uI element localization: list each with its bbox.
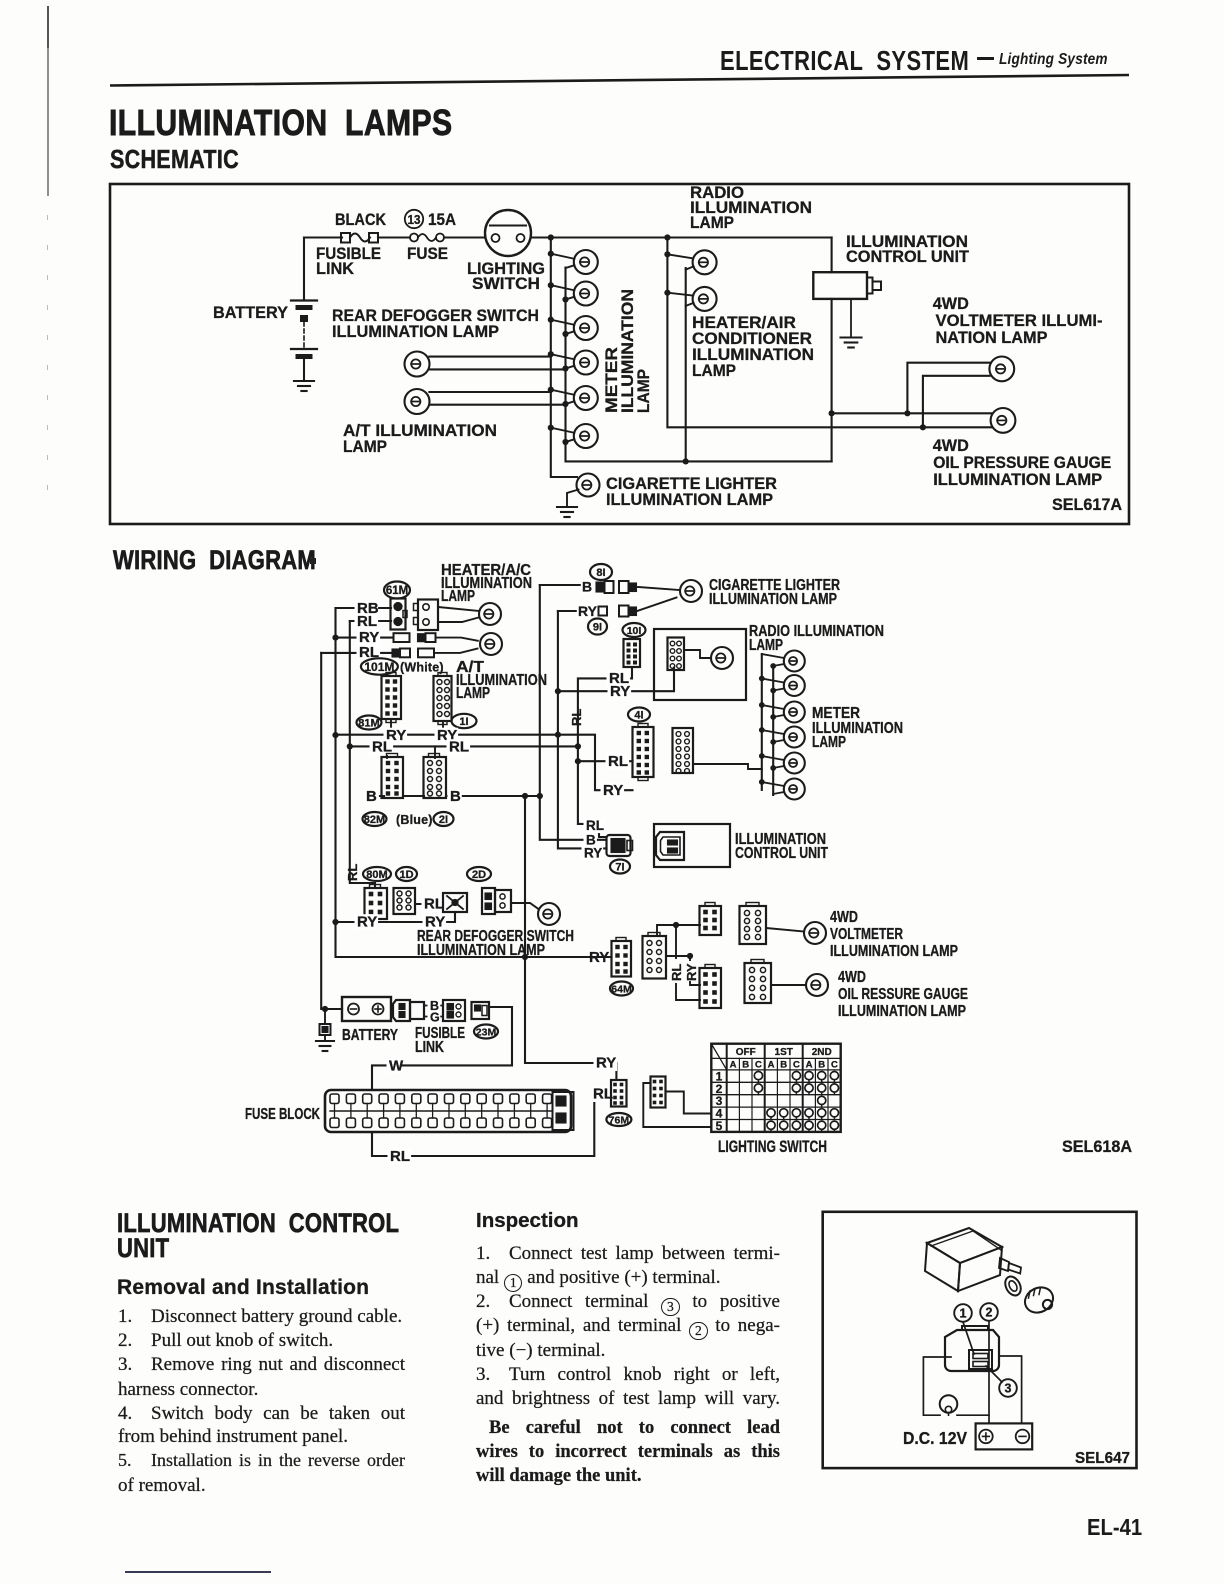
svg-text:ILLUMINATION LAMP: ILLUMINATION LAMP bbox=[606, 490, 773, 509]
connector 82M bbox=[382, 754, 404, 799]
node: bus1 tap 5 bbox=[548, 387, 554, 393]
header rule (slightly skewed like scan) bbox=[0, 70, 1224, 90]
svg-text:RY: RY bbox=[596, 1055, 616, 1072]
rear defogger switch illumination lamp bbox=[405, 352, 566, 377]
label oval 81M bbox=[357, 716, 382, 730]
wire: RY to cigarette lamp bbox=[637, 598, 677, 612]
cigarette lighter illumination lamp bbox=[567, 474, 600, 508]
connector 4I mate bbox=[673, 728, 694, 773]
svg-text:B: B bbox=[780, 1059, 787, 1070]
label oval 10I bbox=[623, 623, 646, 637]
svg-text:8I: 8I bbox=[596, 567, 605, 579]
label oval 101M bbox=[361, 658, 398, 674]
connector radio inside bbox=[668, 638, 685, 671]
running header bbox=[720, 45, 969, 77]
svg-text:C: C bbox=[831, 1059, 838, 1070]
label oval 80M bbox=[363, 867, 391, 881]
wire: radio lamp return drop bbox=[685, 268, 687, 461]
connector 4wd oil B bbox=[745, 960, 772, 1004]
node: meter busA tap bbox=[759, 702, 765, 708]
wire: battery negative loop bbox=[999, 1356, 1022, 1423]
connector 1I bbox=[434, 673, 452, 725]
connector 2D pair bbox=[482, 888, 511, 914]
svg-text:RL: RL bbox=[608, 753, 628, 770]
svg-text:D.C. 12V: D.C. 12V bbox=[903, 1428, 967, 1448]
node: 4wd RL tap bbox=[673, 922, 679, 928]
node: RY heater tap bbox=[332, 635, 338, 641]
svg-text:RL: RL bbox=[424, 896, 444, 913]
meter illumination lamp 3 bbox=[551, 316, 598, 340]
wire: to defogger lamp bbox=[511, 903, 539, 909]
connector 64M bbox=[612, 938, 632, 977]
connector cigarette B pair bbox=[597, 581, 637, 593]
svg-text:RL: RL bbox=[449, 739, 469, 756]
wiring: vertical RL label bbox=[345, 864, 360, 881]
inspection figure frame bbox=[823, 1212, 1137, 1468]
wire: to cigarette lamp bbox=[638, 587, 679, 590]
svg-text:BATTERY: BATTERY bbox=[213, 303, 289, 322]
svg-text:LAMP: LAMP bbox=[812, 734, 846, 751]
svg-text:RY: RY bbox=[584, 846, 602, 861]
ground: battery ground bbox=[294, 381, 314, 391]
title bbox=[109, 102, 453, 144]
label METER ILLUMINATION LAMP (vertical) bbox=[602, 289, 653, 413]
connector 80M bbox=[365, 885, 388, 920]
svg-text:RL: RL bbox=[390, 1148, 410, 1165]
svg-text:RY: RY bbox=[357, 914, 377, 931]
svg-text:3: 3 bbox=[1005, 1382, 1012, 1396]
svg-text:61M: 61M bbox=[386, 585, 408, 597]
wire: main feed after switch bbox=[531, 236, 832, 238]
label oval 9I bbox=[588, 619, 607, 635]
removal list bbox=[118, 1306, 402, 1328]
connector 76M mate bbox=[651, 1077, 666, 1108]
label oval 64M bbox=[610, 982, 633, 996]
node: B row join bbox=[537, 793, 543, 799]
wire: control unit lower drop bbox=[831, 299, 833, 462]
subsection: Removal and Installation bbox=[117, 1276, 369, 1300]
label oval 1D bbox=[396, 867, 417, 881]
svg-text:FUSE: FUSE bbox=[407, 244, 448, 263]
svg-text:5: 5 bbox=[716, 1119, 723, 1133]
svg-text:RL: RL bbox=[345, 864, 360, 881]
wire: voltmeter lamp branch lower bbox=[923, 376, 990, 428]
svg-text:BATTERY: BATTERY bbox=[342, 1027, 399, 1044]
wiring: RY branch to 4I bbox=[558, 735, 633, 791]
4wd oil pressure gauge illumination lamp (wiring) bbox=[806, 974, 828, 996]
label terminal 2 bbox=[980, 1303, 998, 1321]
svg-text:LAMP: LAMP bbox=[456, 685, 490, 702]
lighting switch SW1 bbox=[485, 210, 531, 256]
node: bus1 tap 4 bbox=[548, 351, 554, 357]
wiring: RL wire to 61M bbox=[350, 620, 391, 622]
svg-text:RL: RL bbox=[586, 818, 604, 833]
label fuse number 13 bbox=[405, 210, 423, 228]
svg-text:ILLUMINATION LAMP: ILLUMINATION LAMP bbox=[838, 1003, 966, 1020]
wiring: RL branch to 4I bbox=[578, 760, 633, 762]
cigarette lighter illumination lamp (wiring) bbox=[680, 580, 702, 602]
node: 4wd RY tap bbox=[687, 953, 693, 959]
label oval 23M bbox=[474, 1025, 498, 1039]
wiring: meter bus B bbox=[772, 666, 774, 795]
svg-text:101M: 101M bbox=[364, 660, 394, 674]
connector 4wd voltmeter A bbox=[700, 903, 722, 936]
fusible link FL bbox=[341, 233, 378, 243]
wire: terminal 1 lead bbox=[963, 1322, 974, 1354]
wire: meter lamp bus 2 (return) bbox=[566, 268, 832, 462]
node: meter busA tap bbox=[759, 727, 765, 733]
4wd voltmeter illumination lamp bbox=[989, 357, 1014, 382]
wire: meter lamp bus 1 (supply) bbox=[551, 238, 577, 478]
wire: radio lamp bus 3 bbox=[667, 238, 991, 428]
wire: to 4wd oil lamp bbox=[771, 984, 806, 986]
svg-text:RY: RY bbox=[603, 782, 623, 799]
svg-text:9I: 9I bbox=[593, 621, 602, 633]
connector 61M bbox=[391, 599, 408, 630]
svg-text:15A: 15A bbox=[428, 210, 456, 229]
heater/AC lamp 2 (wiring) bbox=[480, 633, 502, 655]
node: RL row tap bbox=[347, 743, 353, 749]
node: B row at drop bbox=[522, 793, 528, 799]
svg-text:SEL647: SEL647 bbox=[1075, 1450, 1130, 1467]
node: bus3 tap heater bbox=[664, 290, 670, 296]
meter illumination lamp 4 bbox=[551, 351, 598, 375]
connector cigarette RY pair bbox=[599, 606, 637, 617]
node: radio-bus junction bbox=[664, 234, 670, 240]
connector 7I bbox=[607, 835, 633, 856]
wiring: RB wire to 61M bbox=[336, 607, 392, 609]
ground: cigarette lighter lamp ground bbox=[557, 507, 577, 517]
page margin scan artifact bbox=[47, 6, 50, 48]
svg-text:B: B bbox=[366, 788, 377, 805]
svg-text:76M: 76M bbox=[609, 1114, 630, 1126]
svg-text:RY: RY bbox=[684, 963, 699, 981]
meter illumination lamp 2 bbox=[551, 282, 598, 306]
meter illumination lamp 6 bbox=[551, 424, 598, 448]
heater/AC lamp 1 (wiring) bbox=[479, 603, 501, 625]
battery B1 bbox=[291, 238, 317, 382]
fuse F13 15A bbox=[410, 234, 444, 242]
svg-text:(Blue): (Blue) bbox=[396, 813, 433, 827]
svg-text:RL: RL bbox=[669, 964, 684, 981]
svg-text:1D: 1D bbox=[399, 869, 413, 881]
svg-text:LAMP: LAMP bbox=[690, 213, 734, 232]
svg-text:B: B bbox=[818, 1059, 825, 1070]
svg-text:82M: 82M bbox=[364, 814, 385, 826]
label oval 8I bbox=[590, 564, 612, 580]
footnote rule bbox=[125, 1571, 271, 1573]
label oval 82M bbox=[363, 812, 387, 826]
connector defogger X bbox=[443, 893, 467, 912]
fusible link connectors (wiring) bbox=[393, 1000, 424, 1021]
wiring: RY wire drop to 76M bbox=[525, 957, 616, 1080]
svg-text:LIGHTING SWITCH: LIGHTING SWITCH bbox=[718, 1138, 827, 1156]
wiring: RL link to defogger connector bbox=[415, 903, 443, 905]
svg-text:C: C bbox=[755, 1059, 762, 1070]
connector 10I bbox=[624, 639, 641, 667]
connector 101M bbox=[382, 673, 402, 723]
node: bus1 tap 6 bbox=[548, 425, 554, 431]
node: battery ground tap bbox=[322, 1006, 328, 1012]
svg-text:SEL617A: SEL617A bbox=[1052, 495, 1122, 514]
node: V3 RL row bbox=[575, 743, 581, 749]
radio illumination lamp bbox=[667, 250, 716, 274]
svg-text:A: A bbox=[768, 1059, 775, 1070]
wire: 61M to heater lamp 1 bbox=[438, 607, 479, 611]
control unit switch body (3d) bbox=[925, 1228, 1021, 1291]
page number bbox=[1087, 1514, 1142, 1541]
node: switch-output junction bbox=[548, 234, 554, 240]
svg-text:CONTROL UNIT: CONTROL UNIT bbox=[846, 247, 970, 266]
node: bus1 tap 3 bbox=[548, 317, 554, 323]
svg-text:BLACK: BLACK bbox=[335, 210, 387, 229]
wiring: to lighting switch table row4 bbox=[666, 1092, 712, 1114]
section heading: ILLUMINATION CONTROL UNIT bbox=[117, 1211, 399, 1261]
wiring: RL wire fuse block to 76M bbox=[372, 1094, 611, 1156]
label oval 4I bbox=[628, 708, 650, 722]
node: bus1 tap 1 bbox=[548, 251, 554, 257]
svg-text:LAMP: LAMP bbox=[749, 637, 783, 654]
wiring: RY row bbox=[336, 734, 558, 736]
node: bus2 tap 4 bbox=[562, 365, 568, 371]
meter illumination lamp (wiring) 5 bbox=[762, 753, 805, 774]
wiring: left vertical RL-defogger bbox=[350, 621, 375, 888]
svg-text:2I: 2I bbox=[439, 814, 448, 826]
lighting switch table bbox=[711, 1044, 840, 1133]
wire: control unit feed drop bbox=[831, 238, 833, 273]
node: voltmeter branch top bbox=[904, 410, 910, 416]
svg-text:13: 13 bbox=[408, 213, 421, 227]
connector 23M b bbox=[472, 1002, 490, 1019]
wire: 4I to meter bus bbox=[693, 764, 762, 769]
connector 23M a bbox=[443, 1000, 465, 1021]
node: bus2 tap 6 bbox=[562, 439, 568, 445]
fuse block bbox=[325, 1090, 574, 1132]
schematic frame bbox=[110, 184, 1129, 524]
svg-text:VOLTMETER: VOLTMETER bbox=[830, 926, 903, 943]
wiring: RY wire heater lamp 2 bbox=[336, 637, 394, 639]
svg-text:LAMP: LAMP bbox=[692, 361, 736, 380]
svg-text:23M: 23M bbox=[476, 1026, 497, 1038]
node: RY64M junction bbox=[522, 954, 528, 960]
radio assembly box bbox=[654, 629, 746, 700]
radio illumination lamp (wiring) bbox=[711, 647, 733, 669]
svg-text:ILLUMINATION LAMP: ILLUMINATION LAMP bbox=[709, 591, 837, 608]
label oval 76M bbox=[606, 1113, 631, 1126]
svg-text:4WD: 4WD bbox=[830, 909, 858, 926]
label oval 7I bbox=[610, 860, 630, 874]
svg-text:LAMP: LAMP bbox=[441, 588, 475, 605]
battery d.c. 12v bbox=[976, 1423, 1033, 1449]
wiring: left vertical RB/RY main bbox=[336, 608, 584, 957]
svg-text:64M: 64M bbox=[611, 983, 632, 995]
svg-text:A: A bbox=[806, 1059, 813, 1070]
svg-text:OFF: OFF bbox=[736, 1047, 756, 1058]
wire: main feed from battery to lighting switch bbox=[304, 236, 485, 238]
4wd oil pressure gauge illumination lamp bbox=[991, 408, 1016, 433]
illumination control unit U1 bbox=[813, 272, 881, 299]
node: 4wd branch on control drop bbox=[829, 410, 835, 416]
wiring: left vertical RL-main bbox=[321, 653, 342, 1009]
wire: to 4wd voltmeter lamp bbox=[766, 928, 804, 932]
wire: radio connector to lamp bbox=[684, 650, 711, 658]
svg-text:SEL618A: SEL618A bbox=[1062, 1138, 1132, 1156]
svg-text:B: B bbox=[582, 579, 592, 595]
labels at connector 7I bbox=[584, 833, 597, 848]
label RL vertical 4wd bbox=[669, 964, 684, 981]
wiring: B vertical V1 bbox=[540, 585, 607, 840]
node: voltmeter branch bottom bbox=[920, 424, 926, 430]
meter illumination lamp 1 bbox=[551, 250, 598, 274]
wire: terminal 2 lead to battery positive bbox=[988, 1321, 990, 1423]
subsection: Inspection bbox=[476, 1209, 579, 1233]
illumination control unit box (wiring) bbox=[654, 824, 730, 867]
meter illumination lamp (wiring) 6 bbox=[762, 779, 805, 800]
node: meter busB tap bbox=[770, 739, 776, 745]
svg-text:OIL RESSURE GAUGE: OIL RESSURE GAUGE bbox=[838, 986, 968, 1003]
meter illumination lamp (wiring) 1 bbox=[762, 651, 805, 672]
wiring: 64M to 4wd connectors bbox=[657, 925, 700, 936]
connector heater lamp side bbox=[414, 600, 439, 631]
svg-text:RY: RY bbox=[578, 603, 598, 619]
node: bus2 tap 2 bbox=[562, 296, 568, 302]
svg-text:(White): (White) bbox=[400, 661, 444, 675]
connector 64M mate bbox=[643, 933, 667, 979]
wiring: RY row to 64M bbox=[587, 949, 611, 966]
svg-text:1: 1 bbox=[960, 1307, 967, 1321]
A/T illumination lamp bbox=[405, 389, 566, 414]
connector 76M bbox=[611, 1080, 627, 1107]
node: V3 RL 4I branch bbox=[575, 758, 581, 764]
svg-text:80M: 80M bbox=[366, 869, 387, 881]
node: RY radio tap bbox=[555, 688, 561, 694]
svg-text:LINK: LINK bbox=[316, 259, 355, 278]
node: RY mid tap bbox=[332, 732, 338, 738]
wire: control unit ground stem bbox=[850, 299, 852, 338]
wire: voltmeter lamp branch upper bbox=[907, 363, 989, 414]
connector 1D bbox=[394, 888, 416, 914]
svg-text:ILLUMINATION LAMP: ILLUMINATION LAMP bbox=[830, 943, 958, 960]
wiring: RY from radio connector bbox=[558, 668, 674, 692]
label oval 1I bbox=[452, 714, 477, 728]
svg-text:7I: 7I bbox=[615, 861, 624, 873]
svg-text:2D: 2D bbox=[472, 869, 486, 881]
label oval 61M bbox=[384, 582, 410, 599]
ground: control unit ground bbox=[841, 338, 862, 348]
rear defogger switch illumination lamp (wiring) bbox=[538, 903, 560, 925]
svg-text:A: A bbox=[730, 1059, 737, 1070]
node: meter busB tap bbox=[770, 714, 776, 720]
wiring: RY vertical V2 bbox=[558, 611, 607, 848]
battery (wiring) bbox=[342, 997, 391, 1021]
svg-text:W: W bbox=[389, 1058, 404, 1075]
connector 4wd oil A bbox=[700, 965, 722, 1009]
node: meter busB tap bbox=[770, 688, 776, 694]
svg-text:1I: 1I bbox=[459, 716, 468, 728]
wiring: B to cigarette lighter bbox=[540, 584, 581, 586]
connector front view bbox=[945, 1326, 999, 1371]
meter illumination lamp 5 bbox=[551, 386, 598, 410]
connector 4I bbox=[633, 724, 654, 781]
meter illumination lamp (wiring) 4 bbox=[762, 727, 805, 748]
wiring: W wire 23M loop to fuse block bbox=[372, 1007, 512, 1090]
svg-text:CONTROL UNIT: CONTROL UNIT bbox=[735, 845, 828, 862]
wiring: RY to cigarette lighter bbox=[558, 610, 578, 612]
label oval 2I bbox=[434, 812, 454, 826]
wiring: B drop to RY-64M row bbox=[524, 796, 526, 957]
node: RY defogger tap bbox=[332, 919, 338, 925]
heater/air conditioner illumination lamp bbox=[667, 287, 716, 311]
caution note bbox=[489, 1418, 780, 1439]
svg-text:1ST: 1ST bbox=[775, 1047, 793, 1058]
svg-text:LINK: LINK bbox=[415, 1039, 445, 1056]
node: return junction at radio drop bbox=[683, 458, 689, 464]
svg-text:10I: 10I bbox=[627, 625, 642, 637]
svg-text:B: B bbox=[450, 788, 461, 805]
node: meter busA tap bbox=[759, 779, 765, 785]
svg-text:B: B bbox=[742, 1059, 749, 1070]
svg-text:ILLUMINATION LAMP: ILLUMINATION LAMP bbox=[332, 322, 499, 341]
wiring: RL wire heater lamp 2 bbox=[321, 652, 392, 654]
control knob bbox=[1021, 1283, 1058, 1318]
node: bus1 tap 2 bbox=[548, 282, 554, 288]
connector control unit plug bbox=[656, 832, 684, 860]
svg-text:RY: RY bbox=[610, 683, 630, 700]
label terminal 3 bbox=[999, 1379, 1017, 1397]
svg-text:G: G bbox=[430, 1011, 440, 1025]
wiring: RL row bbox=[350, 745, 578, 747]
node: bus3 tap radio bbox=[664, 251, 670, 257]
svg-text:SWITCH: SWITCH bbox=[472, 274, 540, 293]
svg-text:C: C bbox=[793, 1059, 800, 1070]
label terminal 1 bbox=[954, 1304, 972, 1322]
4wd voltmeter illumination lamp (wiring) bbox=[804, 922, 826, 944]
wire: terminal 3 lead bbox=[986, 1366, 1002, 1382]
label RL vertical V3 bbox=[569, 709, 584, 726]
connector 4wd voltmeter B bbox=[740, 903, 767, 945]
svg-text:2ND: 2ND bbox=[812, 1047, 832, 1058]
label RY vertical 4wd bbox=[684, 963, 699, 981]
wiring: to lighting switch table row5 bbox=[643, 1083, 711, 1127]
label oval 2D bbox=[467, 867, 491, 881]
svg-text:FUSE BLOCK: FUSE BLOCK bbox=[245, 1106, 321, 1123]
node: bus2 tap 5 bbox=[562, 401, 568, 407]
svg-text:LAMP: LAMP bbox=[343, 437, 387, 456]
svg-text:81M: 81M bbox=[358, 717, 379, 729]
wire: test lamp loop bbox=[923, 1357, 951, 1415]
svg-text:LAMP: LAMP bbox=[634, 369, 653, 413]
svg-text:RL: RL bbox=[569, 709, 584, 726]
svg-text:4I: 4I bbox=[634, 709, 643, 721]
lock ring washer bbox=[1002, 1274, 1024, 1298]
wiring: meter bus A bbox=[761, 654, 763, 790]
svg-text:4WD: 4WD bbox=[838, 969, 866, 986]
svg-text:2: 2 bbox=[986, 1306, 993, 1320]
wiring: RL from 10I down V3 bbox=[578, 667, 632, 837]
node: meter busA tap bbox=[759, 676, 765, 682]
wiring: RY defogger row bbox=[336, 912, 456, 922]
svg-text:ILLUMINATION LAMP: ILLUMINATION LAMP bbox=[933, 470, 1102, 489]
svg-text:NATION LAMP: NATION LAMP bbox=[936, 328, 1048, 347]
connector 2I bbox=[424, 754, 447, 799]
scan speck bbox=[310, 558, 316, 564]
node: meter busB tap bbox=[770, 663, 776, 669]
node: meter busA tap bbox=[759, 753, 765, 759]
ground: battery ground (wiring) bbox=[316, 1009, 334, 1051]
wiring: B row from 82M/2I bbox=[380, 795, 540, 797]
svg-text:RL: RL bbox=[357, 613, 377, 630]
wire: 4wd top rail bbox=[832, 412, 991, 414]
